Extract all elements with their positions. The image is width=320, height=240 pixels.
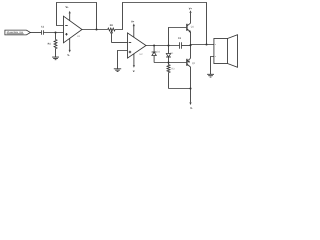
wire output node to Q2 emitter (190, 46, 192, 59)
resistor R1 (48, 33, 57, 58)
wire output node to speaker (191, 44, 214, 46)
wire U2 plus input to ground (118, 51, 128, 69)
node U1 output junction (95, 28, 97, 30)
V- arrow (rail) (189, 89, 192, 111)
node D1 tap (167, 44, 169, 46)
potentiometer R2 (108, 24, 115, 43)
wire Q1 emitter to output node (190, 32, 192, 46)
svg-text:U2: U2 (139, 53, 143, 56)
capacitor C1 (41, 26, 45, 35)
node top loop / speaker (205, 43, 207, 45)
wire speaker bottom to ground (211, 57, 214, 75)
wire U2 output (146, 45, 180, 47)
svg-text:Q1: Q1 (191, 25, 195, 28)
ground (U2 plus) (114, 69, 121, 72)
diode D1 (166, 46, 174, 63)
svg-text:R2: R2 (110, 24, 114, 27)
wire bias (diodes to Q2 base) (154, 62, 186, 64)
node junction input (54, 31, 56, 33)
svg-text:V+: V+ (131, 20, 135, 23)
speaker LS1 (214, 35, 238, 68)
op-amp U2 V- pin (133, 54, 136, 73)
transistor Q2 (187, 58, 196, 67)
capacitor C2 (178, 37, 182, 49)
wire Q1 collector to V+ (190, 13, 192, 23)
V+ arrow (rail) (189, 8, 193, 13)
svg-text:Q2: Q2 (192, 62, 196, 65)
wire U1 output (82, 29, 108, 31)
svg-text:V+: V+ (189, 8, 193, 11)
op-amp U2 (128, 33, 147, 58)
op-amp U2 V+ pin (131, 20, 135, 37)
wire bottom (R3 to rail) (169, 88, 191, 90)
svg-text:V-: V- (67, 54, 70, 57)
svg-text:D1: D1 (170, 52, 174, 55)
svg-text:C2: C2 (178, 37, 182, 40)
node D2 tap (153, 44, 155, 46)
wire C2 to output rail (182, 45, 191, 47)
feedback wire U1 (minus input to output) (57, 3, 97, 30)
op-amp U1 (64, 16, 83, 43)
op-amp U1 V+ pin (65, 6, 70, 21)
transistor Q1 (187, 23, 195, 32)
svg-text:R3: R3 (171, 68, 175, 71)
diode D2 (152, 46, 161, 63)
wire Q1 base feed (169, 28, 187, 46)
resistor R3 (167, 63, 175, 89)
svg-text:D2: D2 (157, 51, 161, 54)
ground (R1) (52, 57, 59, 60)
node bottom rail (189, 87, 191, 89)
wire Q2 collector down (190, 67, 192, 89)
node output rail (189, 44, 191, 46)
ground (speaker) (207, 74, 214, 77)
op-amp U1 V- pin (67, 38, 70, 57)
wire wiper to U2 minus input (112, 42, 128, 44)
node label Audio In flag (5, 30, 31, 35)
wire C1 to U1 plus input (44, 32, 64, 34)
svg-text:C1: C1 (41, 26, 45, 29)
svg-text:V+: V+ (65, 6, 69, 9)
wire flag to C1 (30, 32, 41, 34)
wire pot right to top loop to speaker node (115, 3, 206, 45)
node R3 top (167, 61, 169, 63)
svg-text:R1: R1 (48, 42, 52, 45)
svg-text:V-: V- (133, 70, 136, 73)
svg-text:V-: V- (190, 107, 193, 110)
svg-text:U1: U1 (77, 35, 81, 38)
